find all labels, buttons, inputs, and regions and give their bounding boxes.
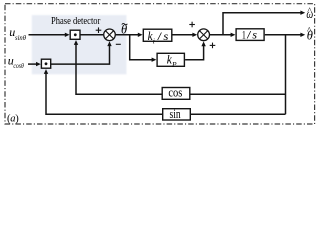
svg-text:s: s [252, 28, 257, 42]
svg-text:cosθ: cosθ [13, 61, 24, 70]
svg-text:s: s [163, 31, 169, 43]
svg-text:sin: sin [170, 107, 182, 121]
svg-text:cos: cos [168, 86, 182, 100]
svg-text:P: P [171, 60, 177, 69]
svg-text:): ) [15, 113, 19, 124]
svg-text:1: 1 [242, 28, 246, 42]
svg-text:i: i [153, 37, 155, 46]
svg-text:^: ^ [307, 7, 312, 17]
svg-text:sinθ: sinθ [15, 33, 26, 42]
svg-text:^: ^ [307, 27, 312, 37]
svg-text:Phase detector: Phase detector [51, 15, 101, 27]
